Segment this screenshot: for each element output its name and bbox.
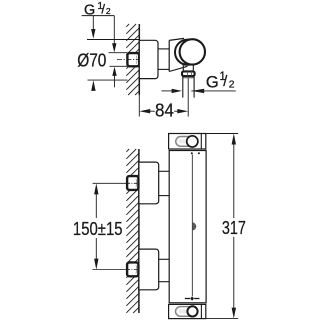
supply pipe centerline: [117, 59, 139, 61]
connector behind body (top view): [158, 48, 170, 50]
bottom cap slider slot: [176, 307, 197, 317]
G1/2 label underline: [82, 15, 115, 17]
svg-text:2: 2: [106, 6, 111, 16]
lower nut centerline: [93, 269, 127, 271]
dimension 84: [139, 109, 150, 113]
valve body profile (top view): [169, 38, 184, 40]
svg-text:2: 2: [229, 79, 235, 90]
right G1/2 leader with arrow: [191, 90, 236, 92]
top cap knob circle: [187, 136, 198, 147]
lower union escutcheon: [139, 249, 159, 290]
thermostat handle circle: [180, 39, 205, 64]
outlet pipe: [182, 76, 184, 97]
svg-text:/: /: [101, 2, 105, 17]
wall section (top view): [126, 24, 139, 95]
escutcheon top extension line (line A): [87, 39, 139, 41]
lower connector: [159, 258, 170, 260]
lower wall nut: [127, 262, 138, 276]
escutcheon (top view): [139, 40, 158, 78]
svg-text:150±15: 150±15: [73, 218, 123, 239]
outlet centerline extension: [187, 78, 189, 117]
svg-text:84: 84: [155, 100, 174, 121]
wall section (front view): [126, 149, 138, 313]
dimension 317: [206, 133, 238, 135]
svg-text:Ø70: Ø70: [77, 49, 106, 70]
upper connector: [159, 170, 170, 172]
handle back flange circle: [175, 40, 200, 65]
supply nut (top view): [127, 53, 139, 66]
wall extension line for 84 dim: [138, 95, 140, 116]
outlet left arrow (points right at pipe): [162, 90, 173, 92]
svg-text:317: 317: [222, 217, 246, 238]
upper nut centerline: [93, 182, 127, 184]
body main (front view): [169, 151, 206, 303]
body internal line: [191, 152, 193, 154]
top cap: [169, 134, 206, 150]
top cap slider slot: [176, 137, 197, 147]
upper union escutcheon: [139, 162, 159, 204]
bottom cap: [169, 304, 206, 318]
label G1/2 (top): [84, 1, 111, 19]
svg-text:G: G: [206, 73, 219, 91]
escutcheon bottom extension line (line D): [88, 79, 128, 81]
outlet neck: [182, 64, 184, 72]
nut bottom extension line (line C): [110, 65, 128, 67]
dim 70 bottom arrow (up, tip on line D): [91, 80, 95, 91]
upper wall nut: [127, 176, 138, 190]
G1/2 leader arrow to escutcheon top line: [92, 16, 94, 30]
arrow up at nut bottom line + shaft: [112, 67, 116, 76]
outlet nut G1/2: [182, 71, 195, 76]
G1/2 second leader: underline corner down to nut top line: [113, 16, 115, 44]
bottom cap knob circle: [187, 306, 197, 316]
dimension 150±15: [94, 183, 98, 194]
nut top extension line (line B): [109, 52, 128, 54]
bottom tick symbol: [185, 298, 190, 300]
economy button bump: [192, 222, 196, 230]
label G1/2 (right): [206, 70, 235, 91]
